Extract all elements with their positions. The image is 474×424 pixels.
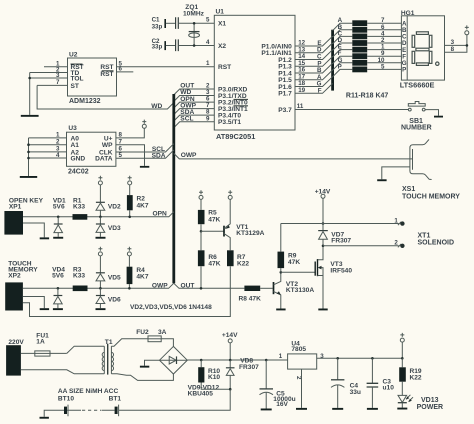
svg-text:KT3129A: KT3129A [236, 230, 264, 237]
svg-text:K33: K33 [73, 204, 85, 211]
bridge rectifier VD9-VD12 KBU405 [160, 346, 220, 397]
svg-text:VD3: VD3 [108, 225, 121, 232]
display segment B [429, 35, 432, 47]
IC U3 24C02 eeprom box [67, 125, 116, 176]
display segment D [416, 63, 428, 66]
wire P3.1 WD to bus [174, 89, 215, 101]
wire bus exit E line [333, 44, 353, 57]
svg-text:+14V: +14V [222, 332, 238, 339]
wire primary top lead [67, 346, 105, 353]
wire segG to display pin10 [367, 57, 401, 64]
ground XP2 [40, 308, 49, 310]
svg-text:P1.7: P1.7 [278, 91, 292, 98]
wire display pin8 [445, 35, 467, 53]
capacitor C1 33p [152, 16, 215, 30]
battery BT1 [109, 395, 122, 416]
svg-text:OPN: OPN [153, 210, 168, 217]
node C4 junction [336, 357, 339, 360]
wire U2 pin1 stub [44, 66, 68, 68]
wire segE to display pin1 [367, 44, 401, 51]
resistor R19 K22 [399, 358, 422, 395]
wire OWP net bus to XS1 [174, 152, 413, 159]
node C3 junction [371, 357, 374, 360]
svg-text:A1: A1 [71, 142, 80, 149]
svg-text:K33: K33 [73, 273, 85, 280]
wire U1 pin17 A to bus [295, 70, 333, 81]
resistor R9 47K [278, 224, 301, 273]
svg-text:P3.7: P3.7 [278, 107, 292, 114]
connector XS1 touch memory probe [402, 139, 460, 200]
ground bridge [140, 366, 149, 368]
wire solenoid terminal1 line [281, 223, 399, 225]
svg-text:GND: GND [71, 155, 86, 162]
svg-text:u10: u10 [383, 385, 395, 392]
svg-text:11: 11 [297, 103, 304, 110]
ground U3 left [20, 176, 37, 178]
node VD2-VD3 junction [99, 216, 102, 219]
wire rectified 14V rail [187, 359, 287, 361]
svg-text:RST: RST [218, 64, 231, 71]
svg-text:P3.5/T1: P3.5/T1 [218, 119, 241, 126]
display segment G [416, 48, 429, 51]
node U3 A2 junction [27, 151, 30, 154]
led VD13 POWER [398, 395, 443, 411]
node U3 GND junction [27, 157, 30, 160]
svg-text:4: 4 [206, 39, 210, 46]
wire U1 pin18 G to bus [295, 77, 333, 88]
diode VD7 FR307 flyback [318, 224, 351, 246]
ground C3 [367, 408, 378, 410]
svg-text:1: 1 [394, 217, 398, 224]
wire VT1 base lead [201, 230, 224, 232]
svg-text:5V6: 5V6 [52, 273, 64, 280]
node U2 pin3 junction [28, 77, 31, 80]
wire bus exit A line [333, 17, 353, 30]
svg-text:KBU405: KBU405 [188, 391, 214, 398]
svg-text:ADM1232: ADM1232 [69, 98, 101, 105]
diode VD6 clamp [96, 288, 121, 308]
wire SCL net U3 CLK to bus [116, 144, 174, 154]
ground VD6 [96, 308, 106, 310]
svg-text:LTS6660E: LTS6660E [400, 81, 435, 90]
svg-text:U3: U3 [68, 125, 77, 132]
wire U2 pin7 ST [37, 84, 67, 86]
svg-text:BT1: BT1 [109, 395, 122, 402]
svg-text:16V: 16V [276, 401, 288, 408]
ground VD3 [96, 237, 106, 239]
wire battery positive riser [119, 389, 230, 410]
svg-text:VD2: VD2 [108, 203, 121, 210]
svg-text:47K: 47K [288, 259, 300, 266]
svg-text:R11-R18 K47: R11-R18 K47 [346, 92, 389, 99]
svg-text:VD2,VD3,VD5,VD6 1N4148: VD2,VD3,VD5,VD6 1N4148 [130, 304, 212, 311]
capacitor C3 u10 [367, 358, 395, 408]
svg-text:33u: 33u [350, 389, 361, 396]
node R10 top junction [200, 359, 203, 362]
node VD5-VD6 junction [99, 287, 102, 290]
wire OUT net from bus [174, 282, 245, 289]
svg-text:1: 1 [206, 60, 210, 67]
svg-text:XP1: XP1 [9, 204, 22, 211]
wire secondary bottom lead [111, 374, 173, 381]
svg-text:DATA: DATA [95, 155, 113, 162]
node VT1 base junction [200, 230, 203, 233]
node +5V terminal VT1 [228, 190, 232, 199]
resistor R2 4K7 [127, 185, 149, 217]
node VD1 junction [57, 216, 60, 219]
connector XP2 TOUCH MEMORY [5, 260, 38, 310]
node VD4 junction [57, 287, 60, 290]
ground VD4 [53, 308, 63, 310]
node U3 A1 junction [27, 143, 30, 146]
wire U2 pin2 [30, 72, 68, 74]
U3 pin numbers [56, 132, 122, 159]
svg-text:4K7: 4K7 [137, 202, 149, 209]
wire U1 pin16 B to bus [295, 63, 333, 74]
ground XP1 [40, 237, 49, 239]
svg-text:4K7: 4K7 [136, 274, 148, 281]
IC U1 AT89C2051 box [214, 9, 295, 142]
regulator U4 7805 [279, 340, 325, 380]
svg-text:P: P [338, 63, 342, 70]
wire VT1 collector to XP2 return line [23, 266, 230, 316]
wire U1 pin19 F to bus [295, 84, 333, 95]
svg-text:NUMBER: NUMBER [401, 125, 432, 132]
svg-text:SDA: SDA [152, 153, 166, 160]
wire P3.5 SCL to bus [174, 116, 215, 128]
wire U4 ground pin [301, 369, 303, 408]
svg-text:X2: X2 [218, 43, 226, 50]
node VD7 top junction [322, 222, 325, 225]
connector 220V mains [6, 339, 24, 375]
wire primary bottom lead [21, 370, 104, 374]
svg-text:FR307: FR307 [239, 364, 259, 371]
ground U2 [21, 115, 39, 117]
node +5V terminal R2 [128, 176, 132, 185]
wire bus exit G line [333, 57, 353, 70]
svg-text:33p: 33p [152, 43, 163, 50]
wire U1 pin14 C to bus [295, 50, 333, 61]
diode VD5 clamp [96, 256, 121, 288]
ground VD1 [53, 237, 63, 239]
node VD8 top junction [229, 359, 232, 362]
ground U4 [296, 408, 307, 410]
zener VD1 5V6 [53, 197, 66, 236]
node +14V terminal bottom [222, 332, 238, 360]
wire U2 left vertical to ground [29, 73, 31, 115]
ground VT2 emitter [276, 309, 285, 311]
connector XT1 SOLENOID [394, 217, 454, 248]
svg-text:HG1: HG1 [401, 10, 415, 17]
node +5V terminal R19 [400, 333, 404, 358]
svg-text:10MHz: 10MHz [183, 10, 205, 17]
svg-text:IRF540: IRF540 [330, 267, 352, 274]
wire U1 pin12 E to bus [295, 36, 333, 47]
ground battery [40, 417, 49, 419]
transistor VT1 KT3129A pnp [224, 199, 265, 250]
node display common junction [466, 44, 469, 47]
wire U3 A0 [29, 137, 67, 139]
node R19 junction [401, 357, 404, 360]
svg-text:33p: 33p [152, 24, 163, 31]
node crystal-X2 junction [193, 44, 196, 47]
transistor VT3 IRF540 mosfet [315, 246, 352, 309]
wire WD net from U2 ST to bus [37, 85, 174, 110]
diode VD3 clamp [96, 217, 121, 237]
svg-text:3A: 3A [158, 329, 167, 336]
connector XP1 OPEN KEY [4, 197, 43, 234]
wire bus exit B line [333, 24, 353, 37]
svg-text:OWP: OWP [152, 282, 168, 289]
svg-text:OWP: OWP [181, 152, 197, 159]
svg-text:+14V: +14V [315, 188, 331, 195]
transformer T1 [102, 339, 113, 375]
svg-text:5: 5 [206, 17, 210, 24]
display segment E [412, 51, 415, 63]
wire U1 pin15 P to bus [295, 57, 333, 68]
resistor R3 K33 [73, 267, 88, 292]
ground U3 WP [140, 166, 149, 168]
wire 5V output line [317, 357, 403, 359]
ground VD13 [397, 408, 407, 410]
resistor R7 K22 [227, 250, 249, 267]
svg-text:WP: WP [102, 142, 113, 149]
wire XP1 ground lead [23, 223, 44, 237]
wire bridge left vertex to ground [145, 360, 160, 366]
svg-text:BT10: BT10 [58, 395, 74, 402]
wire segD to display pin2 [367, 37, 401, 44]
node R6 bottom junction [200, 287, 203, 290]
svg-text:ST: ST [71, 83, 79, 90]
fuse FU1 1A [21, 332, 67, 356]
svg-text:5: 5 [381, 63, 385, 70]
node crystal-X1 junction [193, 22, 196, 25]
display segment F [412, 35, 415, 47]
wire secondary top lead [111, 339, 173, 347]
svg-text:RST: RST [100, 71, 113, 78]
svg-text:2: 2 [394, 240, 398, 247]
wire P3.3 OWP to bus [174, 102, 215, 114]
svg-text:8: 8 [451, 46, 455, 53]
ground C5 [261, 409, 272, 411]
wire U3 left vertical [28, 138, 30, 176]
resistor network R11-R18 K47 [346, 20, 389, 99]
wire solenoid terminal2 line [323, 245, 399, 247]
svg-text:220V: 220V [8, 339, 24, 346]
svg-text:U2: U2 [69, 52, 78, 59]
zener VD4 5V6 [52, 267, 65, 309]
node +5V terminal display [465, 25, 469, 34]
svg-text:POWER: POWER [417, 404, 443, 411]
svg-text:XP2: XP2 [8, 273, 21, 280]
svg-text:19: 19 [298, 87, 305, 94]
svg-text:VD6: VD6 [108, 297, 121, 304]
wire VT3 gate lead [281, 271, 315, 273]
svg-text:K22: K22 [410, 374, 422, 381]
svg-text:24C02: 24C02 [68, 169, 89, 176]
op-amp U2 ADM1232 supervisor box [68, 52, 117, 105]
wire +14V rail to solenoid [322, 198, 324, 223]
wire bus exit C line [333, 30, 353, 43]
svg-text:9: 9 [206, 115, 210, 122]
svg-text:XS1: XS1 [402, 186, 415, 193]
wire U1 pin13 D to bus [295, 43, 333, 54]
svg-text:47K: 47K [208, 261, 220, 268]
wire bus right display bundle [331, 30, 334, 91]
wire P3.2 OPN to bus [174, 96, 215, 108]
wire bus exit P line [333, 63, 353, 76]
wire segB to display pin6 [367, 24, 401, 31]
resistor R10 K10 [198, 360, 230, 389]
transistor VT2 KT3130A npn [274, 272, 315, 308]
resistor R6 47K [198, 231, 221, 288]
svg-text:U1: U1 [216, 9, 225, 16]
wire U3 WP to ground [116, 145, 145, 166]
capacitor C2 33p [152, 38, 215, 51]
wire U3 GND [29, 157, 67, 159]
svg-text:1A: 1A [36, 339, 45, 346]
svg-text:7805: 7805 [291, 346, 306, 353]
svg-text:K10: K10 [208, 374, 220, 381]
svg-text:FR307: FR307 [331, 237, 351, 244]
display segment A [416, 32, 428, 35]
ground SB1 [434, 116, 443, 118]
wire display pin3 [445, 39, 467, 46]
svg-text:KT3130A: KT3130A [286, 287, 314, 294]
switch SB1 NUMBER [401, 102, 432, 132]
node R4 bottom junction [128, 287, 131, 290]
wire segF to display pin9 [367, 50, 401, 57]
wire XP2 data OWP to bus [23, 282, 174, 289]
svg-text:5V6: 5V6 [53, 204, 65, 211]
capacitor C5 10000u 16V [260, 360, 296, 409]
svg-text:FU2: FU2 [136, 329, 149, 336]
svg-text:TOL: TOL [71, 75, 84, 82]
diode VD2 clamp [96, 185, 121, 217]
svg-text:F: F [318, 87, 322, 94]
wire U2 pin3 [30, 77, 68, 79]
wire XP1 data OPN to bus [23, 210, 174, 217]
wire bus left signal bundle [172, 94, 175, 283]
display decimal point [436, 62, 439, 65]
diode VD8 FR307 battery [226, 358, 259, 390]
svg-text:P: P [402, 67, 406, 74]
svg-text:TOUCH MEMORY: TOUCH MEMORY [402, 194, 460, 201]
wire U3 A1 [29, 144, 67, 146]
svg-text:SOLENOID: SOLENOID [418, 239, 455, 246]
capacitor C4 33u [331, 358, 361, 408]
wire battery chain dashed [67, 409, 115, 411]
resistor R1 K33 [73, 197, 88, 219]
resistor R4 4K7 [127, 256, 149, 288]
wire bus exit D line [333, 37, 353, 50]
node +5V terminal R5 [199, 190, 203, 199]
node +5V terminal VD2 [98, 176, 102, 185]
ground C4 [332, 408, 343, 410]
node C5 top junction [265, 359, 268, 362]
wire P3.4 SDA to bus [174, 109, 215, 121]
battery BT10 [58, 395, 74, 416]
node VT2 collector junction [280, 271, 283, 274]
svg-text:R5: R5 [208, 209, 217, 216]
svg-text:AA SIZE NiMH ACC: AA SIZE NiMH ACC [58, 388, 119, 395]
wire P3.7 pin11 to SB1 [295, 103, 409, 110]
wire SB1 to ground [425, 110, 438, 116]
svg-text:WD: WD [151, 103, 162, 110]
wire XS1 shell to ground [382, 167, 410, 179]
wire U3 U+ to +5V terminal [116, 128, 144, 138]
svg-text:VD5: VD5 [108, 274, 121, 281]
display HG1 LTS6660E [400, 10, 445, 90]
node R2 bottom junction [128, 216, 131, 219]
wire segP to display pin5 [367, 63, 401, 70]
svg-text:2: 2 [295, 376, 302, 380]
node +5V terminal above U3 [142, 120, 146, 129]
wire U2 pin6 stub [117, 71, 134, 73]
node VD8 bottom junction [229, 388, 232, 391]
resistor R8 47K [239, 286, 273, 303]
wire XP2 ground lead [23, 297, 44, 309]
svg-text:X1: X1 [218, 21, 226, 28]
wire bus exit F line [333, 50, 353, 63]
wire segA to display pin7 [367, 17, 401, 24]
display segment C [429, 51, 432, 63]
svg-text:AT89C2051: AT89C2051 [216, 132, 255, 141]
svg-text:1: 1 [279, 353, 283, 360]
svg-text:5: 5 [119, 152, 123, 159]
node VD7 bottom junction [322, 245, 325, 248]
node +5V terminal R4 [127, 247, 131, 256]
svg-text:47K: 47K [208, 216, 220, 223]
svg-text:T1: T1 [105, 339, 113, 346]
svg-text:R8 47K: R8 47K [239, 295, 262, 302]
wire segC to display pin4 [367, 30, 401, 37]
wire RST net U2 pin5 to U1 pin1 [117, 66, 215, 68]
node +14V terminal [315, 188, 331, 198]
node +5V terminal VD5 [98, 247, 102, 256]
U2 pin numbers [56, 60, 122, 86]
ground VT3 source [318, 309, 327, 311]
svg-text:SCL: SCL [180, 116, 193, 123]
fuse FU2 3A [136, 329, 166, 342]
wire battery negative to ground [44, 410, 64, 417]
svg-text:OUT: OUT [181, 282, 195, 289]
wire U3 A2 [29, 151, 67, 153]
crystal ZQ1 10MHz [183, 4, 205, 45]
resistor R5 47K [198, 199, 221, 231]
wire P3.0 OUT to bus [174, 83, 215, 95]
U1 left pin numbers [206, 17, 210, 123]
svg-text:K22: K22 [237, 261, 249, 268]
wire SDA net U3 DATA to bus [116, 150, 174, 160]
ground XS1 [377, 179, 386, 181]
svg-text:C1: C1 [152, 16, 160, 23]
